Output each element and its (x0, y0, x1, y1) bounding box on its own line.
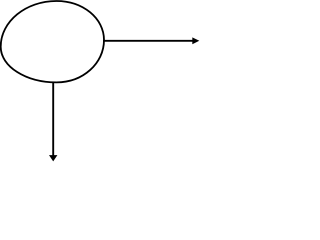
ellipse node (1, 1, 104, 82)
arrow right (103, 37, 199, 44)
arrow down (49, 82, 57, 161)
